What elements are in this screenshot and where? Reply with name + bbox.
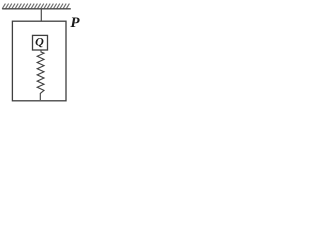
svg-text:Q: Q <box>35 34 44 48</box>
svg-text:P: P <box>70 15 80 31</box>
